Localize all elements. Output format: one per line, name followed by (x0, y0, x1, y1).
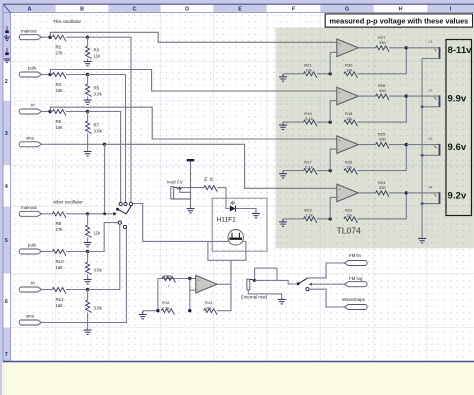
resistor R23 (304, 217, 317, 223)
wire FM log route (311, 283, 345, 285)
label puls (osc1) (28, 66, 37, 71)
wire tri2 tag to R12 (42, 289, 53, 291)
wire sine2 to switch lower contact (42, 229, 127, 323)
wire R8 to node (66, 213, 88, 215)
wire node to U1C inverting input (330, 149, 337, 171)
svg-text:11k: 11k (94, 231, 102, 236)
wire R13 to ground (87, 312, 89, 330)
wire R17 to node (317, 170, 330, 172)
svg-text:External mod: External mod (241, 294, 267, 299)
op-amp U3 (196, 275, 218, 293)
svg-text:other oscillator: other oscillator (53, 199, 83, 204)
supply rail T-bar (187, 159, 195, 208)
ground at R23 (279, 219, 287, 226)
svg-text:E: E (238, 7, 242, 13)
wire bus puls to op-amp U1B (50, 70, 337, 92)
svg-text:A: A (27, 7, 31, 13)
switch S1 contact (puls) (124, 202, 127, 205)
node sine junction (103, 143, 106, 146)
node inverting input U1C (329, 169, 332, 172)
node output U1C (405, 143, 408, 146)
resistor R20 (344, 72, 357, 78)
label R2 (56, 45, 62, 50)
connector tag puls (osc2) (19, 249, 41, 254)
wire inverting input vertical (189, 279, 191, 311)
label 8-11v measured voltage (448, 45, 473, 56)
wire U1C output to R25 (358, 144, 375, 146)
svg-text:16k: 16k (56, 125, 64, 130)
svg-text:J2: J2 (428, 88, 432, 93)
wire FM lin route (308, 263, 345, 278)
wire puls2 tag to R10 (42, 251, 53, 253)
label 10k (346, 68, 352, 73)
label mainout (osc1) (21, 28, 37, 33)
ground at sheet left edge (upper) (4, 26, 10, 41)
svg-text:FM log: FM log (349, 276, 363, 281)
wire sine tag to node (42, 143, 105, 145)
wire R10 to node (66, 251, 88, 253)
svg-text:8-11v: 8-11v (448, 45, 473, 56)
label J2 (428, 88, 432, 93)
svg-text:5.1k: 5.1k (305, 116, 313, 121)
svg-text:This oscillator: This oscillator (53, 19, 82, 24)
svg-text:1.2k: 1.2k (305, 213, 313, 218)
svg-text:27k: 27k (56, 51, 64, 56)
svg-text:11k: 11k (94, 54, 102, 59)
svg-text:R4: R4 (56, 82, 62, 87)
resistor R9 11k (86, 225, 92, 237)
svg-text:3.6k: 3.6k (94, 268, 103, 273)
ground at R15 (139, 311, 147, 319)
LED inside H11F1 (230, 206, 236, 212)
wire R5 to ground (87, 96, 89, 100)
label Waveshape (342, 297, 366, 302)
wire node to U1B inverting input (330, 101, 337, 123)
wire R1 to LED (217, 188, 229, 209)
svg-text:27k: 27k (56, 227, 64, 232)
wire R18 feedback to output (357, 96, 406, 122)
wire output node to J4 (406, 192, 438, 194)
wire node to U1A inverting input (330, 52, 337, 74)
label R14 (205, 300, 213, 305)
wire R28 row (158, 278, 196, 280)
svg-text:R1: R1 (203, 177, 208, 182)
ground for connector rail (418, 239, 426, 243)
wire R19 to node (317, 121, 330, 123)
node inverting input U1A (329, 72, 332, 75)
ground below R7 (84, 152, 92, 156)
svg-text:4: 4 (5, 184, 8, 190)
jack J6 NC contact box (255, 268, 277, 280)
sheet column header strip A-I (3, 4, 474, 12)
svg-text:sine: sine (26, 135, 35, 140)
label R7 (94, 123, 100, 128)
label 11k (346, 116, 352, 121)
resistor R13 3.6k (86, 300, 92, 312)
node R15/R14 (188, 309, 191, 312)
svg-text:H11F1: H11F1 (217, 217, 237, 224)
resistor R1 (204, 186, 217, 192)
label FM log (349, 276, 363, 281)
label 1k (rotated) (208, 177, 213, 181)
ground below R11 (84, 280, 92, 284)
corner cell diagonal (3, 5, 10, 13)
svg-text:9.6v: 9.6v (448, 142, 467, 153)
resistor R4 (53, 73, 66, 79)
wire mainout row to switch contact (88, 37, 131, 202)
label R3 (94, 48, 100, 53)
svg-text:tri: tri (31, 281, 35, 286)
label 16k (R14) (205, 306, 211, 311)
wire R9 to ground (87, 237, 89, 242)
sheet row header strip 1-7 (3, 13, 11, 362)
label R10 (56, 259, 65, 264)
label sine (osc1) (26, 135, 35, 140)
node tri2 junction (86, 288, 89, 291)
svg-text:6: 6 (5, 299, 8, 305)
svg-text:puls: puls (28, 66, 37, 71)
label R28 (164, 273, 172, 278)
wire photoFET source lead (243, 240, 246, 242)
svg-text:mod CV: mod CV (167, 180, 183, 185)
svg-text:J3: J3 (428, 136, 432, 141)
label External mod (241, 294, 267, 299)
wire External mod to FM switch (255, 280, 297, 284)
svg-text:330: 330 (379, 88, 386, 93)
wire R25 to node (389, 144, 406, 146)
wire LED cathode to ground (236, 209, 257, 214)
wire photoFET drain feedback loop (208, 241, 246, 260)
label R26 (378, 83, 386, 88)
svg-text:16k: 16k (56, 303, 64, 308)
wire R20 feedback to output (357, 48, 406, 74)
wire bus sine to op-amp U1D (105, 144, 337, 188)
ground below R9 (84, 243, 92, 247)
label 1.2k (305, 213, 313, 218)
shaded region: TL074 output stage highlight (276, 28, 474, 249)
svg-text:5: 5 (5, 238, 8, 244)
label R21 (304, 63, 312, 68)
resistor R6 (53, 110, 66, 116)
svg-text:Waveshape: Waveshape (342, 297, 366, 302)
ground below mod CV jack (187, 209, 195, 213)
label R16 (345, 159, 353, 164)
resistor R3 (86, 46, 92, 58)
svg-text:11k: 11k (346, 213, 352, 218)
wire tri row to switch contact (88, 112, 121, 203)
svg-text:R8: R8 (56, 221, 62, 226)
label FM lin (349, 253, 362, 258)
resistor R12 (53, 288, 66, 294)
node tri junction (48, 110, 51, 113)
wire bus mainout to op-amp U1A (50, 32, 337, 42)
svg-text:D: D (185, 7, 189, 13)
ground at sheet left edge (lower) (4, 48, 10, 63)
resistor R14 (204, 309, 217, 315)
wire U3 output (217, 283, 231, 285)
switch S1 lower contact b (123, 225, 126, 228)
svg-text:FM lin: FM lin (349, 253, 362, 258)
resistor R11 3.6k (86, 262, 92, 274)
label 3.6k (R11) (94, 268, 103, 273)
label 5.1k (305, 116, 313, 121)
node J2 ground pin (421, 105, 424, 108)
resistor R8 (53, 212, 66, 218)
wire R5 top (87, 75, 89, 85)
label 5.1k (305, 164, 313, 169)
node R6/R7 junction (86, 110, 89, 113)
wire R23 to node (317, 218, 330, 220)
svg-text:330: 330 (379, 40, 386, 45)
connector tag FM lin (345, 261, 368, 266)
op-amp U1D (337, 184, 359, 202)
label R23 (304, 208, 312, 213)
connector tag FM log (345, 282, 368, 287)
optocoupler U2 H11F1 box (212, 198, 267, 251)
label 11k (346, 164, 352, 169)
wire switch common to optocoupler (132, 204, 228, 242)
node output U1B (405, 94, 408, 97)
wire connector ground rail (421, 59, 423, 239)
wire U1D output to R24 (358, 192, 375, 194)
node J3 ground pin (421, 154, 424, 157)
ground below R3 (84, 62, 92, 66)
switch wiper arrowhead (113, 212, 116, 216)
svg-text:3.6k: 3.6k (94, 92, 103, 97)
switch S2 contact circle (Waveshape) (306, 288, 309, 291)
label R27 (378, 35, 386, 40)
label 16k (56, 125, 64, 130)
svg-text:mainout: mainout (21, 28, 37, 33)
label 330 (R24) (379, 185, 386, 190)
resistor R19 (304, 120, 317, 126)
label 10k (305, 68, 311, 73)
resistor R15 (161, 309, 174, 315)
switch S2 wiper pivot (297, 282, 300, 285)
connector tag mainout (osc2) (19, 211, 41, 216)
svg-text:1.2k: 1.2k (162, 306, 170, 311)
connector tag mainout (osc1) (19, 35, 41, 40)
label R24 (378, 180, 386, 185)
svg-text:3.6k: 3.6k (94, 129, 103, 134)
resistor R22 (344, 217, 357, 223)
wire tri tag to node (42, 111, 51, 113)
connector J2 (422, 95, 440, 107)
connector J1 (422, 47, 440, 59)
wire R28 input node vertical (157, 279, 159, 311)
switch S1 contact (tri) (119, 202, 122, 205)
label sine (osc2) (26, 314, 35, 319)
svg-text:tri: tri (31, 103, 35, 108)
svg-text:10k: 10k (346, 68, 352, 73)
label R5 (94, 86, 100, 91)
label R1 (rotated) (203, 177, 208, 182)
wire R6 to R7 node (66, 111, 88, 113)
label R8 (56, 221, 62, 226)
svg-text:C: C (133, 7, 137, 13)
wire output node to J3 (406, 144, 438, 146)
svg-text:R14: R14 (205, 300, 213, 305)
label H11F1 (217, 217, 237, 224)
label 16k (56, 88, 64, 93)
wire R24 to node (389, 192, 406, 194)
label J1 (428, 39, 432, 44)
note box: measured p-p voltage (325, 14, 472, 27)
svg-text:TL074: TL074 (337, 226, 362, 236)
wire tri2 to switch lower contact (88, 224, 120, 289)
label R22 (345, 208, 353, 213)
label TL074 (337, 226, 362, 236)
svg-text:10k: 10k (305, 68, 311, 73)
resistor R2 (53, 35, 66, 41)
label ? (R28 value) (168, 283, 171, 288)
resistor R27 330 (376, 46, 389, 52)
ground for External mod (278, 300, 286, 304)
wire mod CV tip jog (180, 188, 191, 192)
node mainout2 junction (86, 212, 89, 215)
op-amp U1A (337, 39, 359, 57)
label tri (osc2) (31, 281, 35, 286)
label R4 (56, 82, 62, 87)
jack J5 tip contact (174, 187, 178, 189)
svg-text:16k: 16k (56, 265, 64, 270)
wire R7 to ground (87, 133, 89, 151)
wire R13 top (87, 290, 89, 301)
wire bus tri to op-amp U1C (50, 107, 337, 139)
resistor R24 330 (376, 191, 389, 197)
ground below R13 (84, 330, 92, 334)
node switch wiper pivot (116, 208, 119, 211)
wire ground to R19 (283, 121, 303, 123)
ground for LED (252, 214, 260, 218)
label R12 (56, 297, 65, 302)
svg-text:H: H (399, 7, 403, 13)
wire mainout2 tag to R8 (42, 213, 53, 215)
label 27k (56, 51, 64, 56)
wire R12 to node (66, 289, 88, 291)
svg-text:9.9v: 9.9v (448, 94, 467, 105)
connector J4 (422, 192, 440, 204)
svg-text:R28: R28 (164, 273, 172, 278)
op-amp U1B (337, 87, 359, 105)
svg-text:1k: 1k (208, 177, 213, 181)
label mainout (osc2) (21, 205, 37, 210)
svg-text:R10: R10 (56, 259, 65, 264)
svg-text:R3: R3 (94, 48, 100, 53)
node R15 left (156, 309, 159, 312)
wire puls2 to switch lower contact (88, 223, 119, 252)
svg-text:3.6k: 3.6k (94, 306, 103, 311)
ground at R21 (279, 74, 287, 81)
svg-text:3: 3 (5, 131, 8, 137)
wire R21 to node (317, 73, 330, 75)
wire ground to R23 (283, 218, 303, 220)
label tri (osc1) (31, 103, 35, 108)
wire R9 top (87, 214, 89, 225)
wire output node to J2 (406, 95, 438, 97)
label 11k (94, 54, 102, 59)
switch S1 wiper arm (118, 205, 132, 214)
node mod CV tip (178, 187, 181, 190)
node R28/op-amp input (188, 277, 191, 280)
node puls2 junction (86, 250, 89, 253)
label J4 (428, 184, 433, 189)
svg-text:puls: puls (28, 243, 37, 248)
svg-text:330: 330 (379, 185, 386, 190)
wire puls row to switch contact (88, 75, 126, 203)
resistor R25 330 (376, 143, 389, 149)
wire mod CV to R1 (180, 187, 204, 189)
label 16k (56, 303, 64, 308)
connector tag tri (osc2) (19, 287, 41, 292)
wire R26 to node (389, 95, 406, 97)
connector tag puls (osc1) (19, 72, 41, 77)
label puls (osc2) (28, 243, 37, 248)
node inverting input U1B (329, 120, 332, 123)
label 27k (56, 227, 64, 232)
resistor R17 (304, 169, 317, 175)
label 330 (R25) (379, 137, 386, 142)
node J4 ground pin (421, 202, 424, 205)
node External mod tip (253, 279, 256, 282)
connector tag sine (osc2) (19, 320, 41, 325)
switch S2 wiper arm (298, 278, 308, 284)
node R4/R5 junction (86, 73, 89, 76)
label R25 (378, 132, 386, 137)
resistor R16 (344, 169, 357, 175)
switch S1 contact (mainout) (129, 202, 132, 205)
wire ground to R15 (143, 310, 156, 312)
label R19 (304, 111, 312, 116)
svg-text:J1: J1 (428, 39, 432, 44)
resistor R5 (86, 84, 92, 96)
wire node to U1D inverting input (330, 197, 337, 219)
ground at R19 (279, 122, 287, 129)
wire U1B output to R26 (358, 95, 375, 97)
wire puls tag to node (42, 74, 51, 76)
svg-text:R6: R6 (56, 119, 62, 124)
label 3.6k (94, 92, 103, 97)
wire R11 to ground (87, 274, 89, 279)
label 1.2k (162, 306, 170, 311)
label: other oscillator (53, 199, 83, 204)
ground below R5 (84, 100, 92, 104)
op-amp U1C (337, 136, 359, 154)
svg-text:R12: R12 (56, 297, 65, 302)
node mainout junction (48, 36, 51, 39)
label R6 (56, 119, 62, 124)
LED photon arrows (231, 201, 236, 205)
label mod CV (167, 180, 183, 185)
node puls junction (48, 73, 51, 76)
switch S2 contact triangle (FM log) (309, 283, 312, 286)
connector J3 (422, 144, 440, 156)
label 9.2v measured voltage (448, 190, 467, 201)
svg-text:16k: 16k (56, 88, 64, 93)
svg-text:5.1k: 5.1k (305, 164, 313, 169)
jack J6 tip contact (250, 280, 254, 282)
label R18 (345, 111, 353, 116)
wire op-amp U3 lower input stub (190, 289, 196, 291)
wire U1A output to R27 (358, 47, 375, 49)
connector tag tri (osc1) (19, 109, 41, 114)
wire R16 feedback to output (357, 145, 406, 171)
wire Waveshape route (309, 289, 344, 307)
switch S1 lower contact a (118, 221, 121, 224)
jack J5 mod CV body (171, 187, 191, 199)
svg-text:16k: 16k (205, 306, 211, 311)
wire ground to R17 (283, 170, 303, 172)
